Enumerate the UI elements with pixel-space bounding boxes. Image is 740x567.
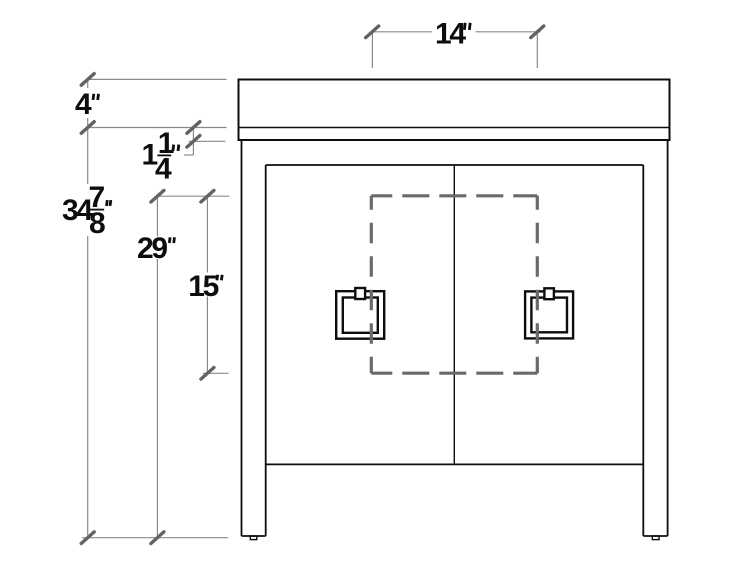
- svg-text:15: 15: [188, 270, 218, 303]
- svg-text:14: 14: [435, 18, 466, 51]
- svg-text:8: 8: [89, 207, 105, 240]
- svg-text:29: 29: [137, 232, 167, 265]
